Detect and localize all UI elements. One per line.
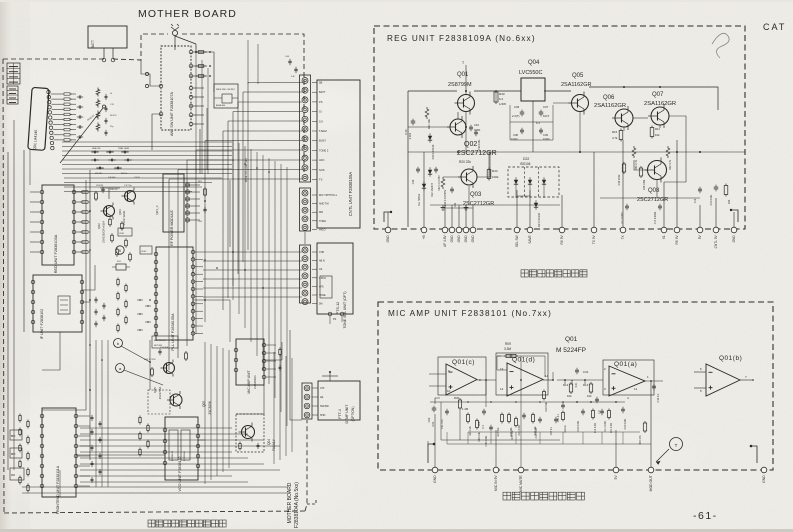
- svg-text:R13: R13: [583, 383, 589, 387]
- svg-text:FTT-4: FTT-4: [338, 409, 342, 419]
- resistor R11: [650, 128, 654, 137]
- mic input parts: [432, 407, 437, 409]
- svg-text:WIDE FM LOW SET: WIDE FM LOW SET: [216, 89, 236, 91]
- frontend right pins: [74, 414, 78, 418]
- opamp Q01(d) box: [496, 353, 548, 395]
- RF module pins: [185, 183, 189, 187]
- svg-text:0.1: 0.1: [482, 425, 485, 429]
- svg-text:R6 470: R6 470: [110, 115, 117, 117]
- svg-text:C37: C37: [543, 105, 549, 109]
- svg-text:2SA1162GR: 2SA1162GR: [561, 82, 592, 88]
- dashed box around Q06: [148, 390, 170, 414]
- svg-text:Q05: Q05: [572, 73, 584, 79]
- transistor Q05 2SA1162GR: [572, 95, 589, 112]
- svg-text:PS: PS: [319, 100, 323, 104]
- junction dot grid: [232, 159, 234, 161]
- tone sql pin labels: [312, 251, 317, 253]
- bus horizontals bottom: [22, 486, 288, 488]
- bus verticals center: [232, 140, 234, 300]
- resistor R30v: [632, 146, 636, 158]
- svg-text:AB N: AB N: [319, 260, 325, 263]
- svg-text:0.01: 0.01: [575, 382, 578, 387]
- svg-text:R04 2.2k: R04 2.2k: [469, 425, 472, 435]
- resistor R04: [467, 415, 470, 422]
- svg-text:AS: AS: [319, 268, 323, 271]
- svg-text:C11 0.001: C11 0.001: [604, 420, 607, 432]
- cap C16x: [538, 418, 542, 420]
- block IF UNIT F2838102: [33, 275, 82, 332]
- svg-text:MIC AMP UNIT F2838101 (No.: MIC AMP UNIT F2838101 (No.7xx): [388, 309, 552, 318]
- cap C30 left: [416, 168, 420, 170]
- svg-text:5B: 5B: [319, 81, 322, 85]
- mic amp mobo stubs: [266, 344, 276, 346]
- mic junction dots: [485, 379, 487, 381]
- RED unit row resistors: [82, 191, 88, 194]
- Q02 bias parts: [95, 193, 98, 199]
- bus horizontals PLL to strip: [203, 251, 302, 253]
- svg-text:SHN: SHN: [320, 414, 325, 417]
- svg-text:C27 0.1: C27 0.1: [550, 426, 553, 435]
- svg-text:MR: MR: [319, 211, 323, 214]
- svg-text:S.K: S.K: [319, 119, 323, 123]
- svg-text:D11 HZ7A2: D11 HZ7A2: [418, 193, 421, 206]
- opamp Q01(d): [507, 363, 543, 396]
- ANT SW left pins: [159, 84, 163, 88]
- svg-text:2SC2795A: 2SC2795A: [158, 386, 162, 399]
- wire trunk N: [193, 300, 230, 342]
- svg-text:2SA1162GR: 2SA1162GR: [644, 101, 676, 107]
- cap C12m: [652, 385, 656, 387]
- motherboard dashed border: [3, 59, 4, 513]
- cap C17x: [595, 398, 599, 400]
- hook symbol mic left: [428, 444, 434, 463]
- dtmf top parts: [329, 372, 331, 381]
- svg-text:C18 0.001: C18 0.001: [577, 420, 580, 432]
- transistor Q03 2SC2712GR mobo: [125, 191, 136, 202]
- block MIC AMP UNIT mobo: [236, 339, 264, 385]
- svg-text:Q06: Q06: [603, 95, 615, 101]
- PLL right stubs: [195, 251, 203, 253]
- component cluster CL3: [137, 299, 143, 301]
- svg-text:ISS106: ISS106: [520, 162, 531, 166]
- cap C42: [434, 168, 438, 170]
- svg-text:BPF: BPF: [11, 436, 16, 438]
- svg-text:PS: PS: [333, 318, 337, 321]
- cap C21x: [445, 410, 449, 412]
- svg-text:Q04: Q04: [528, 60, 540, 66]
- svg-text:R31 10E: R31 10E: [427, 119, 431, 129]
- table text T1: [9, 66, 18, 68]
- resistor R12: [666, 146, 670, 158]
- diode D10: [428, 136, 432, 140]
- svg-text:R16: R16: [612, 130, 618, 134]
- svg-text:5M: 5M: [319, 303, 322, 306]
- svg-text:GND: GND: [762, 475, 766, 483]
- wire trunk P: [264, 342, 282, 360]
- bus horizontals band 2: [64, 177, 222, 179]
- svg-text:C05 0.001: C05 0.001: [485, 435, 488, 447]
- svg-text:5 MHZ: 5 MHZ: [319, 129, 327, 133]
- IC Q01 LA4145: [28, 87, 49, 150]
- connector strip CN3: [300, 245, 311, 303]
- svg-text:C42 0.017/25V: C42 0.017/25V: [439, 175, 441, 191]
- svg-text:RX 9V: RX 9V: [675, 234, 679, 244]
- caption mobo: [148, 520, 155, 527]
- svg-text:Q01: Q01: [565, 336, 578, 343]
- wire trunk L: [42, 332, 60, 370]
- svg-text:BATT: BATT: [91, 40, 95, 48]
- CNTL lower pin labels: [312, 194, 317, 196]
- svg-text:FRONTEND UNIT F2838111A: FRONTEND UNIT F2838111A: [56, 465, 60, 514]
- cap C19x: [621, 408, 625, 410]
- capacitor C38: [520, 129, 524, 131]
- transistor Q02 2SA1162GR mobo: [104, 206, 115, 217]
- resistor R40: [494, 92, 498, 102]
- component cluster CL1: [91, 151, 99, 153]
- filter cluster FL2: [118, 228, 132, 236]
- svg-text:ANT SW UNIT F2838107A: ANT SW UNIT F2838107A: [170, 92, 174, 136]
- svg-text:C12 22p: C12 22p: [124, 185, 132, 187]
- ground G1: [442, 205, 444, 208]
- mic signal wires: [434, 414, 436, 467]
- callout circle a: [116, 364, 125, 373]
- wire low rail 2: [447, 443, 651, 445]
- svg-text:R30 2.7k: R30 2.7k: [635, 159, 638, 170]
- svg-text:LVC550C: LVC550C: [519, 70, 542, 76]
- dtmf pin labels: [312, 387, 318, 389]
- svg-text:2SC2712GR: 2SC2712GR: [463, 201, 494, 207]
- svg-text:1SS133: 1SS133: [96, 185, 104, 187]
- svg-text:GND: GND: [450, 235, 454, 243]
- svg-text:12: 12: [500, 387, 504, 391]
- svg-text:VCO UNIT F2838110: VCO UNIT F2838110: [178, 457, 182, 492]
- svg-text:MIX: MIX: [11, 475, 16, 477]
- small table T2: [7, 86, 18, 104]
- svg-text:RED UNIT F2838103A: RED UNIT F2838103A: [54, 234, 58, 273]
- svg-text:6.3: 6.3: [536, 121, 540, 125]
- wire trunk O: [198, 439, 205, 441]
- caption reg: [521, 270, 528, 277]
- resistor R15m: [643, 423, 646, 431]
- cap C24: [522, 414, 526, 416]
- IF unit pins: [80, 280, 84, 284]
- svg-text:C39: C39: [543, 133, 548, 137]
- Q01 pin resistors: [51, 93, 62, 95]
- REG wires verticals small: [495, 91, 497, 102]
- cap C06: [482, 410, 486, 412]
- svg-text:Q02: Q02: [97, 223, 101, 229]
- svg-text:WIDE VTL LOW SET: WIDE VTL LOW SET: [244, 157, 248, 182]
- svg-text:R48 470: R48 470: [110, 189, 118, 191]
- svg-text:10k: 10k: [587, 394, 592, 398]
- cap C27: [554, 418, 558, 420]
- svg-text:SEL SW: SEL SW: [515, 235, 519, 247]
- capacitor C34: [469, 126, 473, 128]
- callout circle b: [114, 339, 123, 348]
- wire trunk E: [206, 108, 208, 170]
- svg-text:RF POWER MODULE: RF POWER MODULE: [170, 210, 174, 246]
- svg-text:BPF: BPF: [11, 454, 16, 456]
- ANT SW right pins: [189, 50, 193, 54]
- svg-text:R12: R12: [563, 383, 569, 387]
- svg-text:BAT 4V3 RD: BAT 4V3 RD: [154, 339, 166, 342]
- cap C11m: [600, 410, 604, 412]
- diode D12: [428, 170, 432, 174]
- capacitor C11r: [625, 205, 629, 207]
- REG wires Q06 Q07: [623, 127, 625, 131]
- svg-text:MOTHER BOARD: MOTHER BOARD: [138, 8, 237, 20]
- block VCO UNIT F2838110: [165, 417, 198, 480]
- svg-text:14: 14: [545, 374, 549, 378]
- junction dots: [89, 210, 91, 212]
- filter cluster FL1: [109, 219, 112, 225]
- cap C18m: [581, 410, 585, 412]
- Q03 base parts: [441, 177, 445, 189]
- Q04 bias: [239, 444, 241, 449]
- svg-text:D21 ISS133: D21 ISS133: [537, 212, 541, 227]
- svg-text:R30: R30: [454, 396, 460, 400]
- resistor R33: [724, 186, 728, 195]
- svg-text:Q03: Q03: [118, 209, 122, 215]
- svg-text:1.2M: 1.2M: [462, 407, 469, 411]
- transistor Q04 FA1A1Y: [236, 414, 264, 452]
- bus verticals lower: [204, 342, 206, 484]
- svg-text:C41: C41: [454, 202, 457, 207]
- svg-text:CAT: CAT: [763, 22, 786, 32]
- REG terminal risers: [387, 212, 389, 227]
- capacitor C39: [539, 129, 543, 131]
- small table T1: [7, 63, 20, 84]
- svg-text:101T: 101T: [543, 114, 550, 118]
- svg-text:R09: R09: [505, 342, 511, 346]
- svg-text:Q08: Q08: [648, 188, 660, 194]
- svg-text:(OPTION): (OPTION): [351, 407, 355, 422]
- svg-text:R21 3.3M: R21 3.3M: [610, 423, 613, 433]
- wire trunk H: [236, 385, 264, 414]
- svg-text:C24 0.047: C24 0.047: [518, 424, 521, 436]
- svg-text:REG UNIT F2838109A (No.6xx): REG UNIT F2838109A (No.6xx): [387, 34, 536, 43]
- RED UNIT right pins: [72, 190, 76, 194]
- regulator Q04 LVC550C: [521, 78, 545, 101]
- MIC unit dashed border: [378, 302, 773, 470]
- feedback wire d: [497, 355, 501, 357]
- svg-text:GND: GND: [464, 235, 468, 243]
- wire trunk S: [29, 150, 31, 185]
- wire trunk G: [304, 232, 306, 244]
- svg-text:MOTHER BOARD: MOTHER BOARD: [287, 482, 293, 523]
- svg-text:F2838101: F2838101: [253, 375, 257, 389]
- svg-text:R20 22k: R20 22k: [459, 160, 471, 164]
- svg-text:CH8: CH8: [319, 251, 324, 254]
- REG rail lower: [430, 204, 560, 206]
- svg-text:MIC IN 9V: MIC IN 9V: [494, 475, 498, 491]
- svg-text:R08 3.3k: R08 3.3k: [478, 431, 481, 441]
- svg-text:C40 HI3: C40 HI3: [108, 177, 116, 179]
- wire trunk F: [82, 265, 95, 290]
- Q01 bias caps: [78, 95, 80, 98]
- svg-text:GND: GND: [732, 235, 736, 243]
- svg-text:3.3M: 3.3M: [504, 347, 511, 351]
- svg-text:DTMF UNIT: DTMF UNIT: [345, 404, 349, 424]
- REG wires Q05: [579, 112, 581, 152]
- diode D21: [534, 203, 538, 207]
- REG rail mid: [408, 151, 745, 153]
- wire trunk B: [42, 180, 86, 410]
- transistor Q07 2SA1162GR: [651, 107, 669, 125]
- svg-text:2S8799M: 2S8799M: [448, 82, 472, 88]
- svg-text:C02: C02: [427, 417, 431, 422]
- CNTL pin labels: [312, 82, 317, 84]
- REG junction dots: [465, 90, 467, 92]
- wire trunk Q: [42, 470, 60, 497]
- wire trunk K: [229, 180, 231, 247]
- svg-text:10k: 10k: [567, 394, 572, 398]
- PLL right pins: [191, 250, 195, 254]
- antenna J1: [171, 27, 175, 30]
- svg-text:13: 13: [500, 367, 504, 371]
- top parts row: [288, 60, 291, 62]
- resistor R07x: [515, 419, 518, 426]
- svg-text:Q03: Q03: [470, 192, 482, 198]
- REG left terminal stubs group: [445, 207, 473, 209]
- block FRONTEND UNIT F2838111A: [42, 408, 76, 497]
- opamp b stubs: [694, 371, 706, 373]
- diodes in box: [514, 180, 518, 184]
- svg-text:TRBL SEM: TRBL SEM: [118, 148, 129, 150]
- REG wires Q01 cluster: [465, 69, 467, 94]
- svg-text:F2838104A (No.5xx): F2838104A (No.5xx): [294, 482, 300, 528]
- svg-text:4.7k: 4.7k: [612, 136, 618, 140]
- svg-text:0.R: 0.R: [291, 76, 295, 78]
- callout circle 6: [116, 246, 124, 254]
- svg-text:C12 0.1: C12 0.1: [656, 393, 660, 403]
- svg-text:2SC2712GR: 2SC2712GR: [457, 150, 497, 157]
- bus wires top to CNTL: [248, 82, 302, 84]
- svg-text:C30: C30: [412, 179, 415, 184]
- opamp Q01(a) box: [603, 360, 654, 395]
- wire trunk R: [76, 454, 165, 456]
- svg-text:SAVE: SAVE: [528, 235, 532, 243]
- top wires: [247, 40, 249, 84]
- frontend small boxes: [10, 430, 22, 440]
- resistor R16x: [562, 413, 565, 420]
- resistor R49: [639, 168, 642, 176]
- resistor R44: [487, 170, 491, 179]
- resistor R28: [532, 415, 535, 422]
- svg-text:AF 4.8V: AF 4.8V: [443, 234, 447, 246]
- capacitor C36: [520, 111, 525, 113]
- svg-text:C31 0.1: C31 0.1: [557, 413, 560, 422]
- svg-text:11: 11: [634, 387, 637, 391]
- svg-text:C33 0.001: C33 0.001: [478, 139, 481, 151]
- svg-text:6: 6: [119, 249, 121, 253]
- cap C05x: [489, 426, 493, 428]
- resistor R12m: [569, 384, 572, 392]
- svg-text:10k: 10k: [655, 133, 660, 137]
- svg-text:2.2(T): 2.2(T): [512, 114, 520, 118]
- block DTMF UNIT: [318, 381, 360, 420]
- wire risers mic: [446, 432, 448, 444]
- mic rail low: [468, 431, 640, 433]
- block RED UNIT F2838103A: [42, 185, 74, 265]
- capacitor C13: [698, 188, 702, 190]
- svg-text:Q01_X: Q01_X: [155, 205, 159, 214]
- svg-text:0.01: 0.01: [431, 421, 435, 427]
- REG unit dashed border: [374, 26, 745, 229]
- frontend stub wires: [78, 415, 90, 417]
- svg-text:SOS: SOS: [319, 168, 325, 172]
- mic amp mobo pins: [262, 343, 266, 347]
- capacitor C10: [411, 120, 416, 122]
- svg-text:6.2: 6.2: [499, 97, 504, 101]
- svg-text:AND TM: AND TM: [319, 203, 329, 206]
- Q01 pins: [47, 90, 50, 93]
- svg-text:AREA SEL: AREA SEL: [216, 104, 227, 107]
- svg-text:0.01: 0.01: [583, 370, 589, 374]
- svg-text:TONE: TONE: [319, 220, 326, 223]
- svg-text:R22 1k: R22 1k: [121, 173, 127, 175]
- svg-text:Q04: Q04: [267, 439, 271, 445]
- hook symbol right: [731, 210, 738, 222]
- svg-text:Q01(a): Q01(a): [614, 361, 637, 368]
- block CNTL UNIT F2838105A: [317, 80, 360, 228]
- zener D11: [422, 184, 426, 188]
- svg-text:RX 5V: RX 5V: [560, 234, 564, 244]
- wire trunk I: [290, 330, 302, 420]
- svg-text:GND: GND: [433, 475, 437, 483]
- bus verticals from CNTL wires: [247, 83, 249, 251]
- bus horizontals lower: [80, 427, 232, 429]
- svg-text:CF02: CF02: [141, 251, 147, 253]
- battery block BATT: [88, 26, 127, 48]
- svg-text:2SC2712GR: 2SC2712GR: [637, 197, 668, 203]
- svg-text:R33: R33: [728, 199, 731, 204]
- wire trunk J: [149, 340, 151, 390]
- REG left rail: [407, 91, 409, 227]
- ANT SW downlinks: [195, 52, 197, 174]
- svg-text:MIC TM/TTM LL: MIC TM/TTM LL: [319, 194, 338, 197]
- svg-text:MOD OUT: MOD OUT: [649, 475, 653, 491]
- mic junction dots 2: [467, 401, 469, 403]
- svg-text:D10 1SS133: D10 1SS133: [431, 144, 435, 159]
- REG main rail top: [408, 90, 457, 92]
- frontend left pins: [40, 414, 44, 418]
- svg-text:CHI: CHI: [320, 387, 325, 390]
- svg-text:CNTL UNIT F2838105A: CNTL UNIT F2838105A: [348, 172, 353, 217]
- svg-text:5V: 5V: [614, 475, 618, 480]
- transistor Q01 2SB799M: [458, 95, 475, 112]
- block PLL UNIT F2838105A: [156, 247, 193, 340]
- svg-text:1/4W: 1/4W: [499, 102, 506, 106]
- svg-text:10: 10: [447, 389, 451, 393]
- capacitor C17: [658, 205, 662, 207]
- svg-text:0.001: 0.001: [408, 132, 412, 139]
- svg-text:D12 1S2473: D12 1S2473: [431, 182, 434, 197]
- wire trunk C: [196, 52, 214, 92]
- block TONE SQL UNIT: [317, 243, 353, 314]
- capacitor C15: [714, 186, 719, 188]
- svg-text:C13: C13: [694, 198, 697, 203]
- svg-text:GND: GND: [386, 235, 390, 243]
- xtal X01: [116, 264, 126, 270]
- svg-text:Q05: Q05: [202, 401, 206, 407]
- svg-text:M 5224FP: M 5224FP: [556, 347, 586, 354]
- IF unit inner parts: [58, 296, 70, 314]
- caption mic: [503, 492, 511, 500]
- svg-text:C34: C34: [474, 123, 479, 127]
- bias parts 2: [152, 336, 178, 348]
- block ANT SW UNIT F2838107A: [161, 46, 191, 130]
